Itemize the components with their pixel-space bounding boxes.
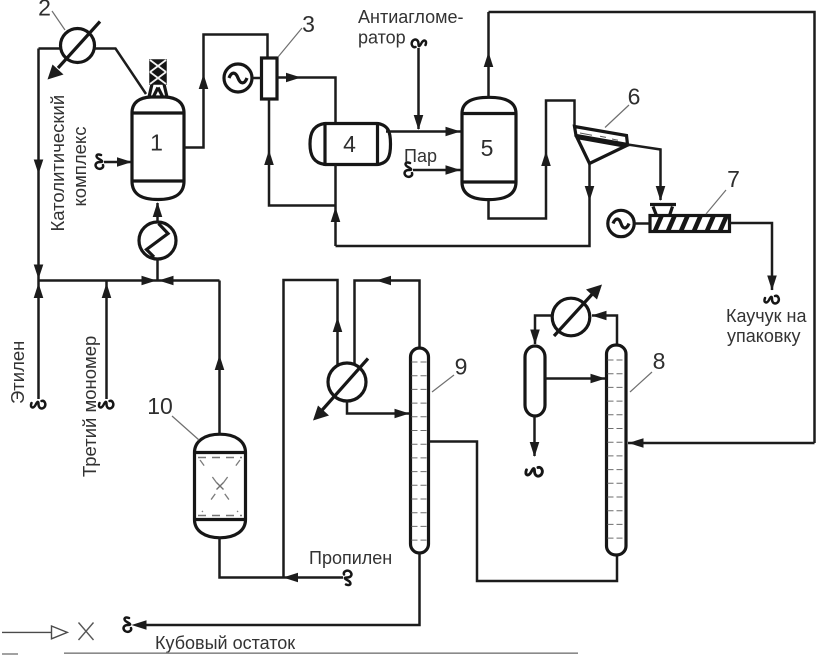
extruder motor circle bbox=[608, 210, 650, 236]
ethylene feed line bbox=[37, 281, 40, 400]
wire HX2 left to catalyst line bbox=[39, 47, 61, 50]
extruder 7 body bbox=[650, 216, 730, 232]
svg-text:ратор: ратор bbox=[358, 28, 406, 48]
column 8 bbox=[607, 345, 627, 555]
arrow into reactor left bbox=[117, 157, 132, 167]
column 8 overhead wire into condenser bbox=[592, 316, 617, 346]
svg-text:комплекс: комплекс bbox=[69, 127, 90, 207]
drum bottom purge wire bbox=[533, 416, 536, 456]
svg-text:10: 10 bbox=[147, 393, 173, 419]
arrow up into that leg bbox=[333, 317, 343, 332]
arrow up into compressor bottom bbox=[264, 150, 274, 165]
condenser circle of column 8 bbox=[552, 285, 602, 337]
steam line Пар bbox=[405, 162, 413, 176]
column 9 bottoms wire bbox=[140, 553, 420, 625]
third monomer feed line bbox=[105, 281, 108, 400]
wire pump down to valve junction bbox=[156, 259, 159, 281]
svg-text:3: 3 bbox=[302, 11, 315, 37]
riser from adsorber 10 to header bbox=[218, 281, 221, 435]
rubber product wire bbox=[730, 223, 773, 290]
svg-text:1: 1 bbox=[150, 130, 163, 156]
motor circle of 3 bbox=[224, 64, 262, 92]
top header wire bbox=[489, 12, 815, 443]
svg-text:2: 2 bbox=[38, 0, 51, 21]
svg-text:8: 8 bbox=[653, 348, 666, 374]
column 9 bbox=[411, 348, 429, 553]
svg-text:4: 4 bbox=[343, 131, 356, 157]
wire vessel 4 to vessel 5 bbox=[386, 130, 461, 133]
valve converging arrows at junction bbox=[142, 276, 157, 286]
wire HX2 right to reactor neck diagonal bbox=[95, 49, 147, 95]
condenser outlet into column 9 bbox=[347, 401, 409, 414]
suction wire vessel4 line to compressor bottom bbox=[269, 99, 336, 206]
leader line for 7 bbox=[706, 190, 726, 214]
wire below vessel 4 with up arrow bbox=[334, 165, 337, 247]
arrow right after 3 bbox=[286, 73, 301, 83]
dryer outlet to hopper bbox=[628, 145, 661, 201]
adsorber 10 packing (dashed) bbox=[198, 458, 242, 516]
svg-text:Католитический: Католитический bbox=[47, 95, 68, 232]
heat exchanger 2 circle bbox=[48, 22, 101, 80]
svg-text:6: 6 bbox=[628, 84, 641, 110]
arrow down on catalyst line lower bbox=[34, 265, 44, 280]
adsorber 10 bbox=[193, 434, 247, 538]
arrow down on cyclone leg bbox=[585, 186, 595, 201]
reflux return wire to column 8 bbox=[545, 377, 605, 380]
svg-text:Третий мономер: Третий мономер bbox=[79, 336, 100, 477]
svg-text:Этилен: Этилен bbox=[7, 341, 28, 404]
reflux drum bbox=[525, 346, 545, 416]
hopper of extruder bbox=[650, 205, 676, 216]
feed hook into reactor bbox=[96, 154, 104, 168]
reactor 1 agitator neck bbox=[149, 84, 167, 98]
vessel 5 bottom outlet loop bbox=[489, 101, 575, 219]
vessel 5 overhead wire bbox=[487, 12, 490, 97]
feed wire into reactor left bbox=[104, 161, 131, 164]
reactor 1 motor box bbox=[150, 60, 166, 84]
wire pump to reactor bottom bbox=[156, 203, 159, 222]
main lower header wire bbox=[39, 279, 220, 282]
leader line for 2 bbox=[52, 11, 65, 30]
svg-text:5: 5 bbox=[481, 135, 494, 161]
compressor 3 bbox=[262, 58, 278, 99]
recycle into column 8 bbox=[628, 442, 815, 445]
vessel 4 bbox=[310, 122, 391, 166]
svg-text:Антиагломе-: Антиагломе- bbox=[358, 7, 464, 27]
dryer 6 cone bbox=[577, 138, 625, 164]
svg-text:упаковку: упаковку bbox=[727, 326, 801, 346]
legend open arrow bottom left bbox=[2, 626, 67, 639]
riser reactor outlet to compressor loop bbox=[184, 35, 268, 148]
legend X mark bbox=[79, 623, 94, 641]
leader line for 9 bbox=[432, 375, 454, 392]
svg-text:Пропилен: Пропилен bbox=[309, 548, 392, 568]
cyclone bottom return wire bbox=[336, 164, 590, 247]
vibrating dryer 6 bar bbox=[575, 127, 628, 145]
reactor 1 body bbox=[131, 97, 186, 200]
pump circle below reactor bbox=[139, 222, 176, 259]
leader line for 3 bbox=[278, 28, 302, 57]
arrow up into reactor bottom bbox=[153, 202, 163, 217]
vessel 5 bbox=[461, 97, 518, 199]
catalyst complex line (vertical) bbox=[37, 49, 40, 281]
svg-text:7: 7 bbox=[727, 166, 740, 192]
bottom scan artifact line bbox=[64, 652, 578, 654]
condenser circle of column 9 bbox=[313, 359, 368, 421]
leader line for 6 bbox=[605, 105, 629, 128]
arrow up on riser bbox=[199, 74, 209, 89]
propylene line into adsorber bottom bbox=[220, 538, 344, 578]
leader line for 10 bbox=[172, 416, 199, 440]
svg-text:9: 9 bbox=[455, 354, 468, 380]
svg-text:Кубовый остаток: Кубовый остаток bbox=[155, 633, 295, 653]
condenser outlet to reflux drum bbox=[535, 316, 552, 345]
wire compressor 3 outlet to vessel 4 bbox=[277, 78, 336, 125]
antiagglomerator feed line bbox=[417, 48, 420, 129]
column 9 side draw to column 8 bottom bbox=[429, 442, 618, 582]
arrow down on catalyst line upper bbox=[34, 160, 44, 175]
svg-text:Пар: Пар bbox=[404, 146, 437, 166]
column 9 overhead loop bbox=[355, 281, 420, 365]
recycle leg to propylene line bbox=[284, 280, 338, 578]
svg-text:Каучук на: Каучук на bbox=[726, 306, 807, 326]
leader line for 8 bbox=[630, 372, 652, 392]
